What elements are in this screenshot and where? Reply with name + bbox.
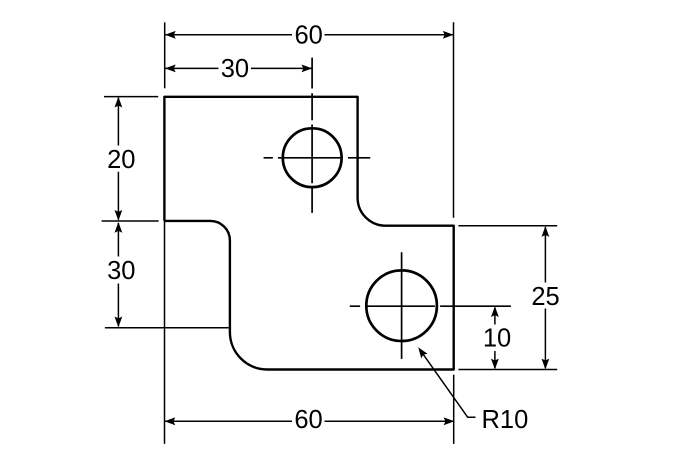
dimension 60 top arrow left	[165, 31, 176, 39]
centerline lower horizontal	[350, 305, 511, 307]
extension line right step	[458, 225, 557, 227]
dimension 20 left line	[117, 98, 119, 220]
dimension 30 left line	[117, 223, 119, 326]
dimension 60 top line	[165, 34, 453, 36]
svg-text:60: 60	[294, 406, 322, 434]
extension line top left	[164, 22, 166, 88]
part outline	[164, 97, 453, 370]
dimension 60 bottom arrow left	[165, 417, 176, 425]
svg-text:25: 25	[531, 283, 559, 311]
centerline upper horizontal	[264, 157, 371, 159]
hole circle upper	[283, 128, 342, 187]
dimension 60 top arrow right	[443, 31, 454, 39]
svg-text:60: 60	[295, 22, 323, 50]
leader R10 line	[421, 351, 476, 418]
dimension 30 top line	[165, 67, 311, 69]
leader R10 arrowhead	[415, 345, 428, 358]
dimension 30 top arrow right	[302, 65, 313, 73]
extension line left step	[102, 220, 159, 222]
extension line left upper	[104, 96, 158, 98]
svg-text:30: 30	[221, 55, 249, 83]
svg-text:30: 30	[107, 257, 135, 285]
dimension 30 left arrow down	[115, 317, 123, 328]
centerline lower vertical	[401, 252, 403, 359]
svg-text:20: 20	[107, 146, 135, 174]
extension line bottom right	[453, 375, 455, 444]
dimension 25 arrow up	[542, 226, 550, 237]
extension line bottom left	[164, 221, 166, 444]
extension line left lower	[105, 327, 229, 329]
dimension 60 bottom line	[165, 420, 454, 422]
extension line top right	[453, 22, 455, 218]
svg-text:10: 10	[483, 325, 511, 353]
dimension 20 arrow up	[115, 97, 123, 108]
dimension 10 arrow up	[491, 306, 499, 317]
hole circle lower	[366, 270, 437, 341]
centerline upper vertical	[311, 58, 313, 213]
extension line right bottom	[458, 369, 557, 371]
dimension 30 top arrow left	[165, 65, 176, 73]
dimension 25 arrow down	[542, 359, 550, 370]
dimension 60 bottom arrow right	[444, 417, 455, 425]
dimension 10 right line	[494, 308, 496, 369]
dimension 30 left arrow up	[115, 222, 123, 233]
dimension 10 arrow down	[491, 359, 499, 370]
dimension 25 right line	[544, 227, 546, 368]
dimension 20 arrow down	[115, 210, 123, 221]
svg-text:R10: R10	[482, 406, 529, 434]
